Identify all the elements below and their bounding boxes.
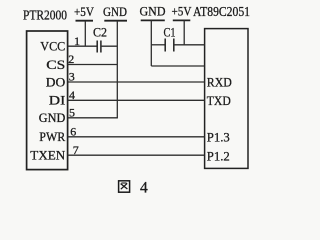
svg-text:PWR: PWR xyxy=(39,129,65,144)
svg-text:AT89C2051: AT89C2051 xyxy=(193,4,250,19)
svg-text:C1: C1 xyxy=(164,25,176,40)
wire U1 pin5 GND to GND(left) rail xyxy=(68,117,118,119)
svg-text:GND: GND xyxy=(39,110,66,125)
power +5V rail bar (left) xyxy=(76,20,94,22)
svg-text:3: 3 xyxy=(69,70,75,84)
wire GND(left) vertical rail down to pin5 xyxy=(116,21,118,118)
ground GND rail bar (left) xyxy=(104,20,127,22)
wire C1 right plate through +5V(right) junction into U2 left edge xyxy=(174,44,205,46)
wire GND(right) rail to C1 left plate xyxy=(151,44,165,46)
svg-text:+5V: +5V xyxy=(172,4,193,19)
power +5V rail bar (right) xyxy=(173,19,191,21)
svg-text:4: 4 xyxy=(69,88,75,102)
svg-text:TXEN: TXEN xyxy=(30,148,66,163)
svg-text:VCC: VCC xyxy=(40,39,65,54)
svg-text:C2: C2 xyxy=(93,25,107,40)
IC U1 PTR2000 box xyxy=(27,31,68,170)
svg-text:DI: DI xyxy=(49,93,66,108)
svg-text:4: 4 xyxy=(140,179,148,196)
svg-text:+5V: +5V xyxy=(74,4,95,19)
wire U1 pin3 DO to U2 RXD xyxy=(68,81,205,83)
wire +5V(left) drop to VCC pin1 xyxy=(84,21,86,47)
wire U1 pin6 PWR to U2 P1.3 xyxy=(68,136,205,138)
svg-text:CS: CS xyxy=(46,57,65,72)
wire U1 pin7 TXEN to U2 P1.2 xyxy=(68,154,205,156)
svg-text:PTR2000: PTR2000 xyxy=(23,9,67,24)
wire U1 pin4 DI to U2 TXD xyxy=(68,99,205,101)
wire U1 pin1 VCC to C2 left plate xyxy=(68,45,98,47)
svg-text:1: 1 xyxy=(74,34,80,48)
svg-text:TXD: TXD xyxy=(207,93,231,108)
svg-text:P1.2: P1.2 xyxy=(207,148,230,163)
svg-text:GND: GND xyxy=(140,4,166,19)
capacitor C1 plates xyxy=(164,39,166,52)
svg-text:P1.3: P1.3 xyxy=(207,130,230,145)
svg-text:5: 5 xyxy=(69,106,75,120)
wire GND(right) vertical rail xyxy=(150,20,152,66)
svg-text:2: 2 xyxy=(68,52,74,66)
wire U1 pin2 CS to GND(left) rail xyxy=(68,64,118,66)
ground GND rail bar (right) xyxy=(141,19,165,21)
capacitor C2 plates xyxy=(96,41,98,53)
svg-text:6: 6 xyxy=(70,125,76,139)
wire +5V(right) drop to C1 lead xyxy=(183,20,185,44)
svg-text:RXD: RXD xyxy=(207,74,232,89)
wire GND(right) into U2 left edge xyxy=(151,65,204,67)
wire C2 right plate to GND(left) rail xyxy=(101,45,117,47)
svg-text:GND: GND xyxy=(103,4,127,19)
svg-text:7: 7 xyxy=(73,143,79,157)
svg-text:DO: DO xyxy=(46,74,66,89)
caption figure character (tu) drawn as strokes xyxy=(119,181,130,192)
IC U2 AT89C2051 box xyxy=(205,29,248,169)
